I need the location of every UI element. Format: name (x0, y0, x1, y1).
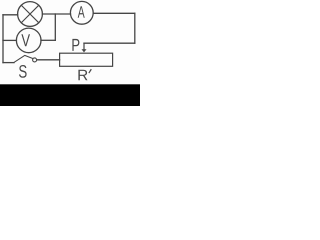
wire right vertical (134, 13, 136, 43)
label R (rheostat) (78, 70, 87, 81)
slider P arrow shaft (83, 43, 85, 49)
wire bottom-left stub (3, 62, 14, 64)
label V (voltmeter) (21, 34, 30, 46)
label S (switch) (19, 65, 27, 78)
black bottom bar (0, 84, 140, 106)
label prime of R' (88, 69, 92, 74)
wire top-left segment (3, 14, 18, 16)
background (0, 0, 140, 106)
label A (ammeter) (78, 6, 85, 18)
label P (slider) (72, 39, 79, 51)
ammeter A circle (70, 1, 93, 24)
wire ammeter to right corner (93, 12, 135, 14)
lamp L (circle with X) (18, 2, 43, 27)
switch pivot circle (33, 58, 37, 62)
wire switch to rheostat (37, 59, 60, 61)
wire voltmeter left (3, 39, 16, 41)
wire lamp to ammeter (42, 13, 70, 15)
voltmeter V circle (16, 28, 41, 53)
wire left vertical (2, 15, 4, 63)
wire right to slider (84, 42, 135, 44)
node junction voltmeter branch wire (54, 14, 56, 40)
wire voltmeter branch horizontal (41, 39, 55, 41)
rheostat R' box (60, 53, 113, 66)
slider P arrowhead (82, 49, 87, 52)
switch S blade (14, 55, 33, 62)
